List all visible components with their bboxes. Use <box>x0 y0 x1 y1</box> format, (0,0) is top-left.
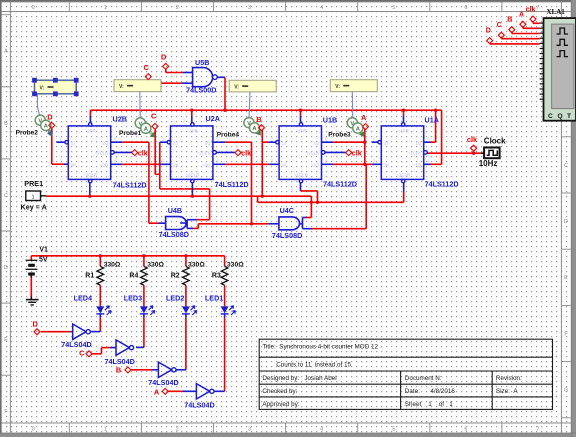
svg-text:U5B: U5B <box>195 58 209 67</box>
svg-text:10Hz: 10Hz <box>479 159 498 168</box>
svg-text:74LS04D: 74LS04D <box>61 340 91 349</box>
svg-text:~1Q: ~1Q <box>311 162 320 167</box>
svg-text:1J: 1J <box>282 140 287 145</box>
svg-text:~2Q: ~2Q <box>100 162 109 167</box>
svg-text:1Q: 1Q <box>415 140 421 145</box>
svg-text:C: C <box>144 63 150 72</box>
svg-text:Probe2: Probe2 <box>16 129 39 136</box>
svg-text:R1: R1 <box>85 273 94 280</box>
svg-text:clk: clk <box>352 149 362 158</box>
svg-text:B: B <box>116 365 121 374</box>
svg-text:C: C <box>79 348 85 357</box>
svg-text:1Q: 1Q <box>313 140 319 145</box>
svg-text:~2CLK: ~2CLK <box>197 151 211 156</box>
svg-text:~2PR: ~2PR <box>187 129 198 134</box>
svg-text:2J: 2J <box>71 140 76 145</box>
svg-text:V:: V: <box>119 84 124 90</box>
svg-text:~1CLR: ~1CLR <box>294 172 308 177</box>
svg-text:U1A: U1A <box>425 115 439 124</box>
svg-text:clk: clk <box>241 149 251 158</box>
svg-text:clk: clk <box>467 135 478 144</box>
svg-text:C: C <box>497 22 502 29</box>
svg-text:~2CLR: ~2CLR <box>83 172 97 177</box>
svg-text:E: E <box>564 275 568 281</box>
svg-text:LED3: LED3 <box>124 293 142 302</box>
svg-text:V:: V: <box>234 84 239 90</box>
svg-text:2K: 2K <box>71 162 76 167</box>
svg-text:74LS04D: 74LS04D <box>184 400 214 409</box>
svg-text:V: V <box>38 119 42 125</box>
svg-text:D: D <box>47 112 53 121</box>
svg-text:E: E <box>4 337 8 343</box>
svg-text:5: 5 <box>392 5 395 11</box>
svg-text:V: V <box>350 121 354 127</box>
svg-text:A: A <box>361 113 367 122</box>
svg-text:74LS112D: 74LS112D <box>323 179 357 188</box>
svg-text:C: C <box>151 112 157 121</box>
svg-text:~2CLR: ~2CLR <box>186 172 200 177</box>
svg-text:Checked by:: Checked by: <box>262 388 297 395</box>
svg-text:2K: 2K <box>173 162 178 167</box>
svg-text:Sheet 1 of 1: Sheet 1 of 1 <box>405 401 453 408</box>
svg-text:D: D <box>33 319 39 328</box>
svg-text:5: 5 <box>392 427 395 433</box>
svg-text:1: 1 <box>104 5 107 11</box>
svg-text:Key = A: Key = A <box>21 203 47 212</box>
svg-text:D: D <box>161 53 167 62</box>
svg-text:~2PR: ~2PR <box>85 129 96 134</box>
svg-text:7: 7 <box>536 5 539 11</box>
svg-text:PRE1: PRE1 <box>24 179 43 188</box>
svg-text:R4: R4 <box>129 273 138 280</box>
svg-text:2J: 2J <box>173 140 178 145</box>
svg-text:T: T <box>567 113 571 120</box>
svg-text:~1PR: ~1PR <box>398 129 409 134</box>
svg-text:Size: A: Size: A <box>496 388 518 395</box>
svg-text:330Ω: 330Ω <box>104 261 121 268</box>
svg-text:LED1: LED1 <box>205 293 223 302</box>
svg-text:G: G <box>564 388 568 394</box>
svg-text:C: C <box>548 113 553 120</box>
svg-text:7: 7 <box>536 427 539 433</box>
svg-text:Clock: Clock <box>484 136 506 145</box>
svg-text:~1CLR: ~1CLR <box>396 172 410 177</box>
svg-text:clk: clk <box>138 149 148 158</box>
svg-text:1: 1 <box>31 194 34 200</box>
svg-text:~2CLK: ~2CLK <box>95 151 109 156</box>
svg-text:330Ω: 330Ω <box>147 261 164 268</box>
svg-text:74LS112D: 74LS112D <box>425 179 459 188</box>
svg-text:LED4: LED4 <box>74 293 92 302</box>
svg-text:Revision:: Revision: <box>496 375 522 382</box>
svg-text:R2: R2 <box>171 273 180 280</box>
svg-text:V: V <box>138 121 142 127</box>
svg-text:Designed by: Josiah Abel: Designed by: Josiah Abel <box>262 375 336 382</box>
svg-text:4: 4 <box>320 5 323 11</box>
svg-text:~2Q: ~2Q <box>202 162 211 167</box>
svg-text:74LS112D: 74LS112D <box>215 180 249 189</box>
svg-text:R3: R3 <box>212 273 221 280</box>
svg-text:V:: V: <box>335 84 340 90</box>
svg-text:U4C: U4C <box>280 206 294 215</box>
svg-text:LED2: LED2 <box>166 293 184 302</box>
svg-text:U1B: U1B <box>323 116 337 125</box>
svg-text:2Q: 2Q <box>205 140 211 145</box>
svg-text:V: V <box>247 121 251 127</box>
svg-text:~1PR: ~1PR <box>295 129 306 134</box>
svg-text:D: D <box>486 27 491 34</box>
svg-text:74LS08D: 74LS08D <box>159 230 189 239</box>
svg-text:330Ω: 330Ω <box>227 261 244 268</box>
svg-text:1J: 1J <box>384 140 389 145</box>
svg-text:5V: 5V <box>39 257 48 264</box>
svg-text:Counts to 11 instead of 15: Counts to 11 instead of 15 <box>276 362 351 369</box>
svg-text:Title: Synchronous 4-bit coun: Title: Synchronous 4-bit counter MOD 12 <box>262 344 378 351</box>
svg-text:330Ω: 330Ω <box>188 261 205 268</box>
svg-text:6: 6 <box>464 5 467 11</box>
svg-text:V1: V1 <box>39 246 48 253</box>
svg-text:U4B: U4B <box>168 206 182 215</box>
svg-text:A: A <box>4 49 8 55</box>
svg-text:Document N:: Document N: <box>405 375 442 382</box>
svg-text:1K: 1K <box>384 162 389 167</box>
svg-text:2: 2 <box>176 427 179 433</box>
svg-text:3: 3 <box>248 5 251 11</box>
svg-text:Q: Q <box>558 113 563 120</box>
svg-text:0: 0 <box>32 427 35 433</box>
svg-text:0: 0 <box>32 5 35 11</box>
svg-text:Probe4: Probe4 <box>217 132 240 139</box>
svg-text:2: 2 <box>176 5 179 11</box>
svg-text:XLA1: XLA1 <box>547 8 566 16</box>
svg-text:6: 6 <box>464 427 467 433</box>
svg-text:Date: 4/8/2016: Date: 4/8/2016 <box>405 388 456 395</box>
svg-text:U2A: U2A <box>206 114 220 123</box>
svg-text:D: D <box>564 219 568 225</box>
svg-text:3: 3 <box>248 427 251 433</box>
svg-text:Probe1: Probe1 <box>119 130 142 137</box>
svg-text:clk: clk <box>526 7 536 14</box>
svg-text:B: B <box>256 115 261 124</box>
svg-text:~1CLK: ~1CLK <box>305 151 319 156</box>
svg-text:2Q: 2Q <box>102 140 108 145</box>
svg-text:C: C <box>4 193 8 199</box>
svg-text:4: 4 <box>320 427 323 433</box>
svg-text:A: A <box>154 388 160 397</box>
svg-text:B: B <box>507 17 512 24</box>
svg-text:74LS112D: 74LS112D <box>113 181 147 190</box>
svg-text:74LS08D: 74LS08D <box>272 231 302 240</box>
svg-text:B: B <box>4 121 8 127</box>
svg-text:A: A <box>519 11 524 18</box>
svg-text:~1Q: ~1Q <box>413 162 422 167</box>
svg-text:Probe3: Probe3 <box>328 132 351 139</box>
svg-text:Approved by:: Approved by: <box>262 401 299 408</box>
svg-text:74LS04D: 74LS04D <box>148 378 178 387</box>
svg-text:74LS00D: 74LS00D <box>186 86 216 95</box>
svg-text:C: C <box>564 163 568 169</box>
svg-text:V:: V: <box>40 85 45 91</box>
svg-text:1K: 1K <box>282 162 287 167</box>
svg-text:1: 1 <box>104 427 107 433</box>
svg-text:~1CLK: ~1CLK <box>408 151 422 156</box>
svg-text:D: D <box>4 265 8 271</box>
svg-text:U2B: U2B <box>113 115 127 124</box>
